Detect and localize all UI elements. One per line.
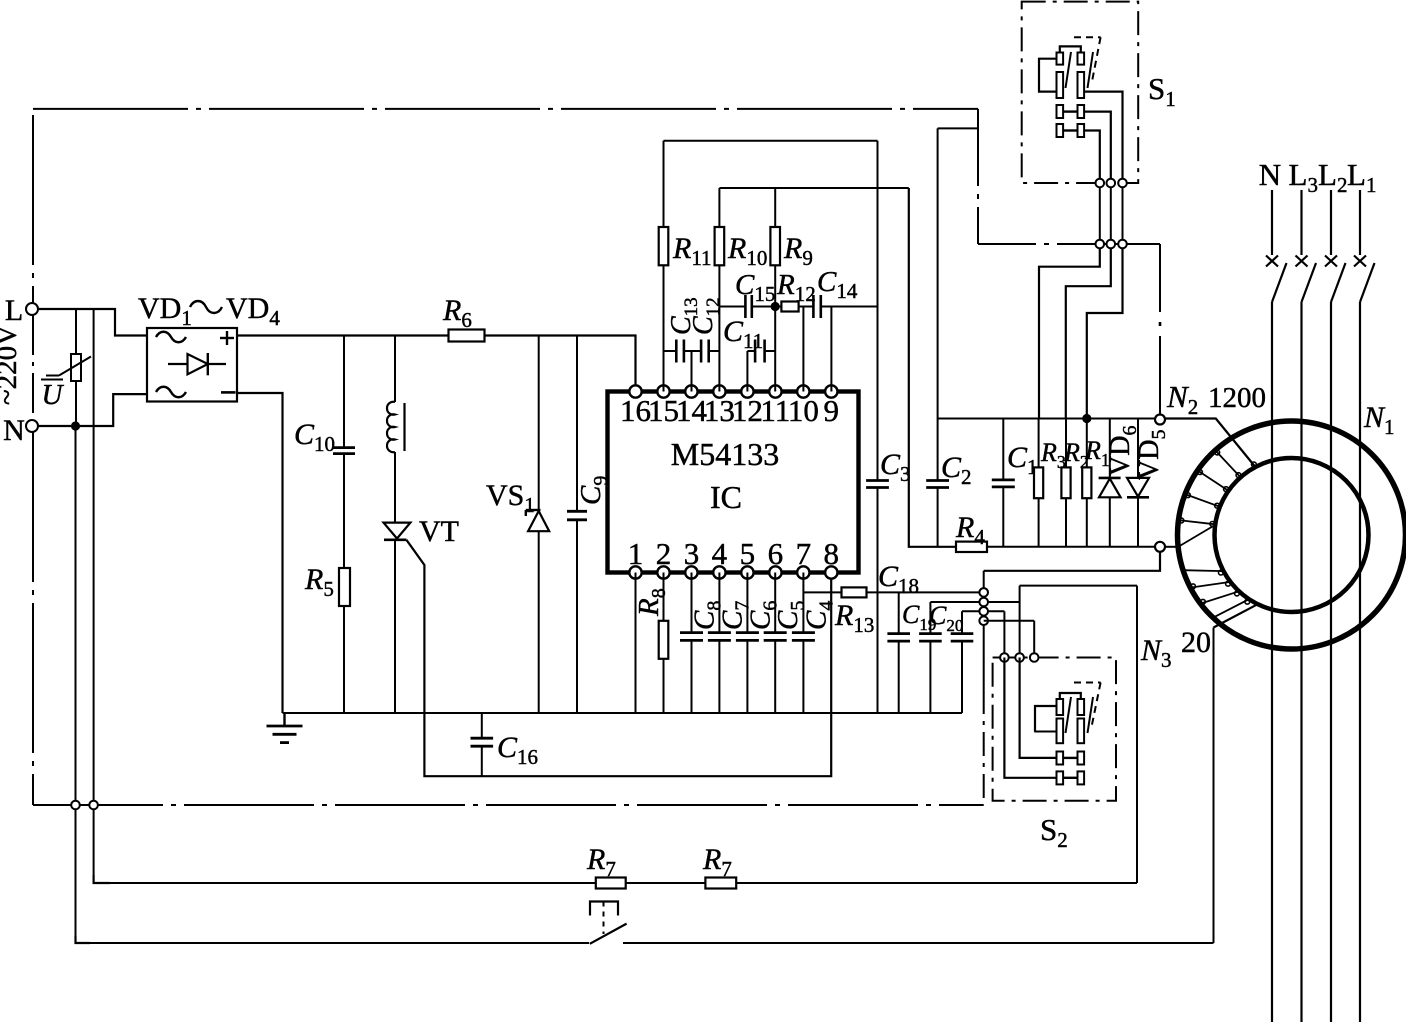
connector circle S1 box edge 1 [1096,179,1105,188]
capacitor C9 [567,511,587,520]
label C1 [1007,441,1038,479]
resistor R5 [339,568,350,606]
wire rail to C9 [576,336,578,512]
S1 row1-row2 left link [1039,59,1057,92]
capacitor C13 [676,340,684,363]
wire S1 to selector bus [1100,187,1123,239]
connector circle S2-c [1030,653,1039,662]
pushbutton SB blade [590,924,627,944]
label N1 [1363,401,1395,439]
label C11 [723,315,763,353]
wire selector1 to R3 top [1039,248,1100,418]
wire bottom dash-dot boundary [33,804,984,806]
resistor R3 [1034,419,1043,547]
resistor R9 [770,227,780,265]
wire S2 feed verticals [1004,586,1034,658]
svg-text:4: 4 [712,536,728,571]
wire dash-dot boundary right vertical segment [977,109,979,244]
wire selector2 to R2 top [1066,248,1111,418]
S2 contact row2 [1057,719,1085,744]
label C12 [688,297,724,335]
svg-text:20: 20 [1181,626,1211,659]
svg-text:IC: IC [710,479,742,515]
svg-text:13: 13 [704,393,735,428]
power line disconnect switches and feeders [1266,190,1375,1022]
pushbutton SB actuator [590,902,618,935]
capacitor C3 [866,481,889,488]
wire VT gate to trigger line [406,540,831,776]
connector circle k3 [979,607,988,616]
label IC [710,479,742,515]
S2 wire to row2 [1034,731,1056,733]
IC bottom pin numbers 1-8 [628,536,839,571]
wire from S1 bus down to node N2 terminal [1159,244,1161,414]
wire bridge minus output down to ground bus [237,393,283,713]
winding N2 turns [1178,450,1256,547]
S2 contact row3 [1057,752,1085,765]
label C4 [800,601,837,630]
wire R7 chain [94,882,1137,884]
label C16 [497,731,538,769]
capacitor C15 [745,295,751,318]
S2 row1-row2 left link [1035,706,1057,732]
resistor R4 [956,542,987,552]
capacitor C16 [471,713,494,776]
label S1 [1148,71,1176,111]
IC bottom pin circles 1-8 [629,566,837,578]
wire C19 top to connector [930,601,1019,603]
wire C2 column [938,128,978,546]
svg-text:11: 11 [760,393,790,428]
wire bridge plus rail to R6 and pin16 [237,336,636,392]
IC top pin numbers 16-9 [620,393,839,428]
wire N3 riser [1213,628,1215,944]
node N2 terminal circle [1155,415,1165,425]
diode VD6 [1099,419,1121,547]
label R11 [672,232,712,270]
wire rail to C10 [343,336,345,448]
label R12 [776,269,816,306]
wire C9 to ground bus [576,520,578,713]
wire pin1 to ground bus [635,573,637,714]
label R7 second [702,843,732,881]
wire pin7 node to R13 to connector column [803,591,979,593]
connector circle S2-a [1000,653,1009,662]
label R9 [783,232,813,270]
IC top pin circles 16-9 [629,385,837,397]
label R13 [834,599,874,637]
S1 exit wire row3 [1084,112,1111,179]
wire C3 column (rail1 down to ground bus) [877,141,879,713]
connector circle bottom-2 [89,801,98,810]
capacitor C14 [813,295,820,318]
S2 contact row1 [1057,693,1085,715]
label C5 [772,601,809,630]
svg-text:M54133: M54133 [671,436,779,472]
wire ground bus [283,712,963,714]
wire pushbutton row left [76,942,590,944]
wire R4 rail to toroid tap circle [987,546,1160,548]
connector circle selector 2 [1107,240,1116,249]
label C10 [294,418,335,456]
wire C10 to R5 [343,454,345,568]
wire tap stub to toroid [1165,546,1178,548]
wire selector3 to R1 top [1087,248,1123,418]
svg-text:15: 15 [648,393,679,428]
capacitor C8 on IC pin [680,573,703,714]
inductor L1 (choke with core) [387,402,405,452]
label R1 [1084,436,1110,470]
wire C13-C12 row [664,350,720,352]
connector circle S2-b [1015,653,1024,662]
wire L terminal to bridge input [38,309,147,336]
resistor R12 [781,302,798,312]
resistor R7 first [596,878,626,889]
svg-text:2: 2 [656,536,672,571]
label C15 [735,269,775,306]
IC U1 M54133 body [608,392,859,573]
S1 linkage dashed [1066,37,1101,88]
node N (mains neutral terminal) [3,414,38,447]
wire A from column top to tap circle [984,551,1160,570]
zener diode VS1 [526,510,549,531]
S1 contact row1 [1057,46,1085,64]
wire R11 to pin15 with C13-row tap [663,265,665,391]
svg-text:8: 8 [824,536,840,571]
label ~220V mains voltage [0,325,23,405]
S1 exit wire row4 [1084,131,1100,179]
wire pin12 riser and C11 row [747,351,775,392]
winding N2 entry wire [1165,419,1256,468]
svg-text:L: L [5,294,23,327]
label R4 [955,511,985,549]
svg-text:7: 7 [796,536,812,571]
label M54133 [671,436,779,472]
label C18 [878,560,919,598]
wire VS1 to ground bus [538,531,540,713]
capacitor C1 [992,419,1015,547]
svg-text:1: 1 [628,536,644,571]
label R10 [727,232,767,270]
wire R10 to pin13 [718,265,720,391]
svg-text:N: N [3,414,25,447]
toroid N1 outer core circle [1178,421,1406,649]
S1 exit wire row2 [1084,92,1122,179]
capacitor C5 on IC pin [764,573,787,714]
capacitor C10 [333,448,355,454]
svg-text:~220V: ~220V [0,325,23,405]
label C7 [716,601,753,630]
capacitor C18 [887,592,910,713]
label R3 [1040,438,1066,472]
capacitor C2 [926,481,949,488]
wire B to R7 riser [1020,585,1137,587]
S2 contact row4 [1057,771,1085,784]
capacitor C6 on IC pin [736,573,759,714]
connector circle S1 box edge 2 [1107,179,1116,188]
wire pin14 riser [691,351,693,392]
wire N2 rail [938,418,1160,420]
capacitor C12 [701,340,709,363]
resistor R13 [842,587,867,597]
capacitor C11 [755,340,765,363]
capacitor C19 [919,602,942,713]
connector circle k4 [979,616,988,625]
connector circle selector 3 [1118,240,1127,249]
wire R9 to pin11 [774,265,776,391]
wire inductor to VT anode [394,452,396,523]
label S2 [1040,812,1068,852]
label C20 [929,601,963,635]
connector circle bottom-1 [71,801,80,810]
svg-text:16: 16 [620,393,651,428]
wire rail to VS1 [538,336,540,511]
S2 linkage dashed [1066,683,1101,734]
wire connector column vertical [983,571,985,805]
label N3 20 [1140,626,1211,672]
connector circle k1 [979,588,988,597]
label N2 1200 [1166,379,1266,419]
wire dash-dot enclosure boundary left vertical [32,115,34,805]
wire rail to inductor [394,336,396,403]
label C13 [666,297,702,335]
wire R7 riser [1136,586,1138,883]
capacitor C4 on IC pin [792,573,815,714]
junction dot pin11 node [771,302,780,311]
svg-text:3: 3 [684,536,700,571]
wire pin10 riser [802,307,804,392]
connector circle selector 1 [1096,240,1105,249]
node toroid tap terminal circle [1155,542,1165,552]
label R8 [633,588,670,617]
labels N L3 L2 L1 [1259,157,1377,197]
label U [41,379,65,411]
label R6 [442,294,472,332]
svg-text:9: 9 [824,393,840,428]
wire k4 to S2 [984,620,1034,622]
wire rail1 top (R11 to C3 column) [664,140,878,142]
junction dot R1 top node [1082,414,1091,423]
wire R4 column (rail2 down to R4 rail) [909,188,956,547]
label C6 [744,601,781,630]
label R2 [1063,438,1089,472]
svg-text:U: U [42,379,65,411]
connector circle k2 [979,598,988,607]
wire VT cathode to ground bus [394,540,396,713]
svg-text:5: 5 [740,536,756,571]
wire rail2 (R10/R9 to R4 column) [719,187,908,189]
label R5 [304,563,334,601]
resistor R7 second [705,878,736,889]
label C14 [817,266,858,303]
svg-text:14: 14 [676,393,708,428]
S2 wire feeds row3 row4 [1004,658,1056,778]
wire R9 riser [774,188,776,227]
label VD1~VD4 [138,292,280,330]
diode VD5 [1127,419,1149,547]
capacitor C20 [951,611,974,713]
node L (mains live terminal) [5,294,38,327]
ground symbol [267,713,303,743]
junction dot varistor-N wire [71,421,80,430]
S1 contact row2 [1057,72,1085,98]
resistor R6 [449,330,485,342]
label C19 [902,600,936,634]
resistor R8 [659,573,669,714]
S1 contact row4 [1057,124,1085,137]
wire R10 riser [718,188,720,227]
bridge rectifier VD1-VD4 [147,328,237,402]
svg-text:12: 12 [732,393,763,428]
toroid N1 inner core circle [1215,458,1369,612]
label C8 [689,601,726,630]
label VD5 [1134,430,1170,480]
thyristor VT [384,523,411,540]
wire C15-R12-C14 row [719,306,877,308]
label C3 [880,448,911,486]
wire R5 to ground bus [343,606,345,713]
wire N terminal to bridge input [38,394,147,426]
wire pin9 riser [830,307,832,392]
wire pushbutton row right [623,942,1214,944]
resistor R2 [1061,419,1070,547]
varistor U [46,309,91,426]
resistor R11 [659,227,669,265]
connector circle S1 box edge 3 [1118,179,1127,188]
capacitor C7 on IC pin [708,573,731,714]
svg-text:VT: VT [419,515,459,548]
label VS1 [486,479,535,517]
wire second tap from L down (to R7 line) [94,309,110,883]
wire dash-dot boundary horizontal at S1 [978,243,1160,245]
label C9 [575,476,612,505]
resistor R10 [715,227,725,265]
switch S1 enclosure box [1022,2,1138,183]
wire C20 top to connector [962,610,1004,612]
resistor R1 [1082,419,1091,547]
svg-text:N: N [1259,157,1281,192]
label C2 [941,451,972,489]
switch S2 enclosure box [993,658,1116,801]
label VT [419,515,459,548]
wire R11 riser [663,141,665,227]
S1 contact row3 [1057,105,1085,118]
svg-text:6: 6 [768,536,784,571]
label R7 first [586,843,616,881]
wire dash-dot enclosure boundary top horizontal [33,108,978,110]
label VD6 [1105,426,1141,476]
svg-text:10: 10 [788,393,819,428]
winding N3 turns and exit [1183,570,1258,627]
wire N-dot down (to pushbutton line) [76,426,91,943]
svg-text:1200: 1200 [1208,382,1266,414]
